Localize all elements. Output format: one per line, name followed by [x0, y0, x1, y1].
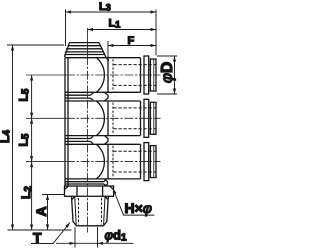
dim L3 left extension: [65, 10, 67, 47]
arrow L1 right: [151, 28, 157, 31]
dim F line: [108, 45, 156, 47]
fitting 3 release button: [150, 146, 156, 178]
band between unit 1 and 2: [65, 92, 108, 101]
fitting 1 centerline: [26, 74, 66, 76]
dim L4 line: [12, 45, 14, 230]
fitting 1 flange ring: [144, 56, 149, 94]
dim L2 line: [31, 162, 33, 230]
svg-text:H×φ: H×φ: [125, 200, 152, 216]
dim phid1 left extension: [74, 227, 76, 248]
arrow L5 upper bottom: [30, 113, 33, 119]
arrow phiD bottom: [173, 89, 176, 95]
arrow L3 right: [151, 10, 157, 13]
arrow F right: [151, 44, 157, 47]
dim phid1 line: [56, 242, 134, 244]
top cap rings: [64, 43, 109, 61]
svg-text:L4: L4: [0, 130, 13, 143]
dim L4 top extension: [7, 44, 64, 46]
dimension lines: [7, 10, 177, 248]
dim F left extension: [107, 41, 109, 57]
svg-text:L1: L1: [109, 18, 121, 30]
arrow phid1 left-point: [98, 242, 104, 245]
arrow L2 bottom: [30, 225, 33, 231]
arrow T leader: [65, 223, 70, 228]
svg-text:T: T: [33, 230, 42, 246]
leader HxPhi: [113, 189, 154, 216]
arrow F left: [108, 44, 114, 47]
dim phiD top extension: [157, 55, 177, 57]
arrow A bottom: [46, 225, 49, 231]
dim L1 line: [88, 29, 157, 31]
body left edge: [65, 58, 68, 186]
arrow L5 upper top: [30, 75, 33, 81]
dim L5 lower line: [31, 118, 33, 161]
fitting 2 centerline: [26, 117, 66, 119]
arrow phiD top: [173, 56, 176, 62]
dome 1: [97, 58, 105, 92]
svg-text:φD: φD: [159, 62, 176, 83]
dim L3 line: [66, 11, 157, 13]
arrow HxPhi leader: [113, 189, 117, 195]
svg-text:A: A: [33, 206, 49, 216]
vertical body centerline: [87, 28, 89, 233]
dim phid1 right extension: [97, 227, 99, 248]
arrow L4 down: [11, 225, 14, 231]
fitting 3 body: [108, 144, 156, 179]
elbow unit 1: [65, 58, 141, 93]
band between unit 2 and 3: [65, 136, 108, 145]
dome 3: [97, 144, 105, 178]
arrow A top: [46, 195, 49, 201]
arrowheads: [11, 10, 176, 245]
dim right extension (L3/L1/F): [155, 10, 157, 56]
elbow unit 2: [65, 101, 141, 136]
svg-text:F: F: [128, 35, 135, 47]
dome 2: [97, 101, 105, 135]
dim phiD bottom extension: [157, 93, 177, 95]
fitting 2 release button: [150, 102, 156, 134]
leader T: [31, 223, 70, 244]
dim A line: [47, 195, 49, 231]
fitting 2 flange ring: [144, 99, 149, 137]
arrow L4 up: [11, 45, 14, 51]
arrow L2 top: [30, 162, 33, 168]
fitting 3 centerline: [26, 161, 66, 163]
fitting 3 flange ring: [144, 143, 149, 181]
arrow L5 lower top: [30, 118, 33, 124]
dim A extension: [42, 194, 65, 196]
dim L5 upper line: [31, 75, 33, 118]
arrow L3 left: [66, 10, 72, 13]
fitting 2 body: [108, 101, 156, 136]
fitting 1 release button: [150, 59, 156, 91]
band below unit 3: [65, 179, 108, 186]
elbow unit 3: [65, 144, 141, 179]
arrow L5 lower bottom: [30, 156, 33, 162]
male taper thread: [72, 197, 109, 226]
svg-text:L3: L3: [99, 1, 111, 13]
bottom baseline extension: [8, 229, 72, 231]
fitting 1 body: [108, 58, 156, 93]
arrow phid1 right-point: [70, 242, 76, 245]
hex nut: [65, 186, 114, 196]
dim phiD line: [174, 56, 176, 94]
arrow L1 left: [88, 28, 94, 31]
